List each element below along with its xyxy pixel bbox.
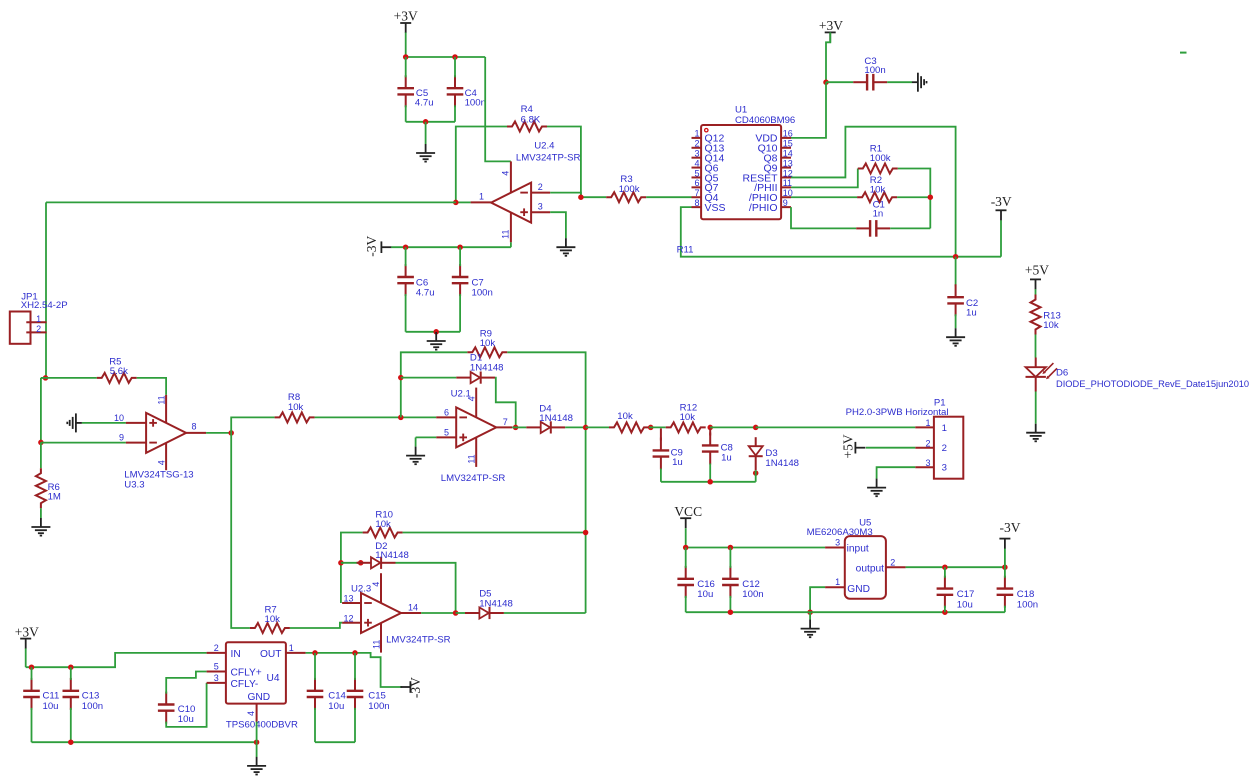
wire U5 output rail (906, 566, 1005, 568)
capacitor C8 (709, 433, 711, 446)
svg-text:10k: 10k (265, 614, 281, 625)
svg-text:6.8K: 6.8K (521, 114, 541, 125)
svg-text:9: 9 (119, 433, 124, 443)
wire to D2 (341, 562, 361, 564)
resistor R5 (97, 373, 137, 383)
svg-text:D6: D6 (1056, 367, 1068, 378)
wire U1 pin 10 (/PHIO) to R2 (791, 196, 857, 198)
wire 10k to R12 (649, 426, 666, 428)
svg-text:5: 5 (694, 168, 699, 178)
photodiode D6 (1035, 358, 1037, 368)
svg-text:4: 4 (371, 582, 381, 587)
capacitor C16 (685, 566, 687, 579)
resistor R7 (250, 623, 290, 633)
svg-text:15: 15 (783, 139, 793, 149)
svg-text:CFLY+: CFLY+ (231, 668, 262, 679)
svg-text:100k: 100k (870, 153, 891, 164)
svg-text:10k: 10k (480, 338, 496, 349)
svg-text:5.6k: 5.6k (110, 366, 128, 377)
resistor R8 (275, 412, 315, 422)
wire R10 right to bus (403, 532, 586, 534)
resistor R4 (507, 122, 547, 132)
capacitor C6 (405, 264, 407, 277)
svg-text:10k: 10k (617, 411, 633, 422)
svg-text:1N4148: 1N4148 (470, 362, 504, 373)
svg-text:4: 4 (466, 396, 476, 401)
wire stub (top right) (1180, 52, 1187, 54)
svg-text:U2.4: U2.4 (534, 141, 555, 152)
wire C5/C4 bottom rail (406, 121, 455, 123)
wire node to R5 (41, 377, 97, 379)
capacitor C3 (853, 81, 867, 83)
junction D2 anode (338, 560, 344, 566)
power +3V (bottom left) (20, 638, 31, 640)
junction C13 bottom (68, 739, 74, 745)
svg-text:11: 11 (467, 454, 477, 463)
capacitor C10 (165, 692, 167, 705)
capacitor C2 (955, 284, 957, 297)
svg-text:+5V: +5V (841, 434, 856, 458)
power -3V (above C18) (999, 538, 1010, 540)
wire U5 gnd to ground (809, 612, 811, 620)
svg-text:10u: 10u (957, 599, 973, 610)
wire +5V to R13 (1035, 289, 1037, 294)
svg-text:100n: 100n (465, 97, 486, 108)
ground right of C3 (912, 81, 918, 83)
svg-text:5: 5 (214, 662, 219, 672)
ground below C2 (955, 328, 957, 337)
svg-text:PH2.0-3PWB Horizontal: PH2.0-3PWB Horizontal (846, 407, 949, 418)
svg-text:100n: 100n (82, 701, 103, 712)
junction C6 top (403, 244, 409, 250)
svg-text:U3.3: U3.3 (124, 479, 144, 490)
junction C17 bottom (942, 609, 948, 615)
wire C14/C15 bottom rail (315, 741, 355, 743)
ground below C5/C4 (425, 144, 427, 153)
wire U2.3 output node (421, 612, 455, 614)
junction U4 GND rail (254, 739, 260, 745)
power -3V (right of U1) (996, 209, 1007, 211)
junction R5 tap (43, 375, 49, 381)
ground at U3.3 pin 10 (76, 422, 82, 424)
svg-text:7: 7 (694, 188, 699, 198)
svg-text:OUT: OUT (260, 649, 282, 660)
svg-text:1: 1 (835, 577, 840, 587)
svg-text:2: 2 (538, 182, 543, 192)
resistor R12 (666, 422, 706, 432)
svg-text:DIODE_PHOTODIODE_RevE_Date15ju: DIODE_PHOTODIODE_RevE_Date15jun2010 (1056, 379, 1249, 389)
junction C12 bottom (728, 609, 734, 615)
wire R7 to U2.3 pin 12 (290, 623, 342, 628)
resistor 10k (unnamed) (609, 422, 649, 432)
power +3V (top middle) (825, 31, 836, 33)
svg-text:-3V: -3V (364, 236, 379, 257)
junction C17 top (942, 564, 948, 570)
svg-text:1u: 1u (966, 308, 977, 319)
svg-text:1N4148: 1N4148 (479, 598, 513, 609)
svg-text:2: 2 (36, 324, 41, 334)
wire D3 bottom (755, 470, 757, 482)
wire R8 to U2.1 pin 6 (315, 416, 437, 418)
junction U5 gnd (807, 609, 813, 615)
svg-text:10k: 10k (375, 519, 391, 530)
junction C12 top (728, 545, 734, 551)
wire U1 pin 11 (/PHII) to R1 (791, 169, 858, 188)
regulator U5 ME6206A30M3 (845, 536, 886, 599)
wire C1 right to bus (890, 227, 930, 229)
wire VCC rail to U5 input (686, 547, 825, 549)
capacitor C17 (944, 576, 946, 589)
junction C8 bottom (707, 479, 713, 485)
svg-text:1: 1 (942, 423, 947, 434)
wire R4 right down to R3 node (547, 127, 581, 198)
wire R10 left down to pin 13 (341, 533, 363, 604)
svg-text:LMV324TP-SR: LMV324TP-SR (516, 153, 581, 164)
wire R12 to D3 node (710, 426, 756, 428)
junction C6/C7 bottom (433, 329, 439, 335)
wire U5 GND to rail (810, 587, 825, 612)
IC U1 CD4060BM96 (701, 125, 781, 219)
svg-text:VSS: VSS (705, 202, 726, 214)
svg-text:100n: 100n (1017, 599, 1038, 610)
svg-text:10k: 10k (1043, 320, 1059, 331)
svg-text:8: 8 (192, 421, 197, 431)
junction U2.3 output (453, 610, 459, 616)
svg-text:100n: 100n (742, 589, 763, 600)
wire R6 to ground (40, 508, 42, 518)
wire P1 pin 3 to ground (877, 467, 916, 479)
svg-text:-3V: -3V (1000, 520, 1021, 535)
wire bus to 10k resistor (586, 426, 609, 428)
svg-text:2: 2 (926, 439, 931, 449)
svg-text:VCC: VCC (674, 504, 702, 519)
op-amp U3.3 LMV324TSG-13 (146, 413, 186, 453)
resistor R13 (1031, 295, 1041, 335)
wire D4 cathode to bus (565, 426, 585, 428)
junction pin9 tap (38, 440, 44, 446)
wire D5 cathode to bus (504, 612, 586, 614)
op-amp U2.3 LMV324TP-SR (361, 593, 401, 633)
wire R1 right to loop bus (898, 169, 931, 229)
power -3V (left of C6) (380, 241, 382, 253)
diode D1 1N4148 (456, 377, 470, 379)
junction D3 bottom (753, 470, 759, 476)
svg-text:LMV324TP-SR: LMV324TP-SR (441, 473, 506, 484)
wire output down to JP1 pin 1 (45, 202, 47, 378)
wire D1 cathode to output node (495, 378, 516, 428)
junction C4 top (452, 54, 458, 60)
wire D6 to ground (1035, 392, 1037, 424)
svg-text:output: output (856, 564, 884, 575)
wire bus down to C2 (955, 257, 957, 287)
junction 10k right (648, 425, 654, 431)
wire output node long horizontal (46, 201, 456, 203)
svg-text:100n: 100n (368, 701, 389, 712)
wire down to R6 (40, 442, 42, 468)
junction U2.4 output (453, 200, 459, 206)
wire -3V rail to U2.4 pin 11 (391, 246, 511, 248)
svg-text:10u: 10u (328, 701, 344, 712)
ground at P1 pin 3 (876, 479, 878, 488)
svg-text:+3V: +3V (819, 18, 843, 33)
wire U2.4 output to node A (456, 201, 471, 203)
svg-text:3: 3 (214, 673, 219, 683)
svg-text:U4: U4 (267, 673, 280, 684)
svg-text:1: 1 (289, 643, 294, 653)
wire node to C3 (826, 81, 853, 83)
wire C11/C13 top rail to U4 IN (26, 653, 207, 667)
capacitor C11 (31, 678, 33, 691)
svg-text:100k: 100k (619, 184, 640, 195)
svg-text:6: 6 (694, 178, 699, 188)
wire ground to U3.3 pin 10 (82, 422, 126, 424)
svg-text:9: 9 (783, 198, 788, 208)
svg-text:-3V: -3V (991, 194, 1012, 209)
svg-text:4.7u: 4.7u (416, 287, 435, 298)
wire U2.4 pin3 to ground (550, 212, 566, 238)
wire R2 right to bus (897, 196, 930, 198)
wire U4 OUT rail (306, 653, 403, 687)
wire main row to P1 pin 1 (756, 426, 916, 428)
ground below U5 (809, 620, 811, 629)
ground at U2.4 pin 3 (565, 238, 567, 247)
junction D3 top (753, 425, 759, 431)
svg-text:11: 11 (783, 178, 792, 188)
svg-text:7: 7 (503, 417, 508, 427)
wire +3V jog down to VDD node (826, 32, 830, 82)
svg-text:1M: 1M (48, 492, 61, 503)
svg-text:8: 8 (694, 198, 699, 208)
svg-text:+3V: +3V (15, 624, 39, 639)
svg-text:2: 2 (214, 643, 219, 653)
wire +3V rail down to U2.4 pin 4 (485, 57, 511, 161)
junction C13 top (68, 664, 74, 670)
wire C10 bottom to CFLY- (166, 683, 206, 727)
wire U2.1 output to D4 (512, 426, 526, 428)
junction C5 top (403, 54, 409, 60)
svg-text:-3V: -3V (408, 677, 423, 698)
svg-text:2: 2 (890, 558, 895, 568)
svg-text:U2.3: U2.3 (351, 584, 371, 595)
svg-text:13: 13 (783, 158, 793, 168)
wire R9 left down to D1 node (401, 352, 468, 417)
ground below U4 (256, 757, 258, 766)
power +5V (top right) (1030, 278, 1041, 280)
regulator U4 TPS60400DBVR (226, 642, 286, 703)
junction R3 left node (578, 194, 584, 200)
op-amp U2.1 LMV324TP-SR (456, 407, 496, 447)
wire U2.4 pin2 to R3 (550, 193, 606, 198)
wire R3 to U1 pin 7 (646, 196, 691, 198)
wire U1 pin 12 (RESET) loop to -3V bus (791, 127, 956, 257)
svg-text:LMV324TP-SR: LMV324TP-SR (386, 635, 451, 646)
resistor R1 (858, 164, 898, 174)
svg-text:IN: IN (231, 649, 241, 660)
wire VCC down to rail (685, 528, 687, 547)
junction C18 top (1002, 564, 1008, 570)
svg-text:+3V: +3V (394, 9, 418, 24)
wire C6/C7 bottom rail (406, 331, 461, 333)
wire +3V to C5/C4 rail (405, 33, 407, 58)
svg-text:3: 3 (694, 148, 699, 158)
junction D4/bus (583, 425, 589, 431)
capacitor C15 (354, 678, 356, 691)
resistor R9 (467, 347, 507, 357)
svg-text:10u: 10u (697, 589, 713, 600)
svg-text:3: 3 (926, 458, 931, 468)
wire bottom gnd rail (32, 741, 257, 743)
wire R4 left to output node (456, 127, 507, 203)
junction C15 top (352, 650, 358, 656)
svg-text:1: 1 (694, 129, 699, 139)
wire node to D1 (401, 377, 456, 379)
power VCC (680, 517, 691, 519)
resistor R6 (36, 468, 46, 508)
power -3V (right of U4) (409, 681, 411, 693)
svg-text:5: 5 (444, 427, 449, 437)
ground below D6 (1035, 424, 1037, 433)
svg-text:TPS60400DBVR: TPS60400DBVR (226, 720, 298, 731)
capacitor C18 (1004, 576, 1006, 589)
capacitor C13 (70, 678, 72, 691)
junction C14 top (312, 650, 318, 656)
ground below R6 (40, 518, 42, 527)
svg-text:10k: 10k (680, 412, 696, 423)
svg-text:3: 3 (835, 538, 840, 548)
wire R9 right to output bus (507, 352, 585, 613)
wire VDD node down to pin 16 (791, 82, 826, 138)
junction C16 top (683, 545, 689, 551)
wire R5 to U3.3 pin 11 (137, 378, 166, 395)
svg-text:100n: 100n (472, 287, 493, 298)
ground at U2.1 pin 5 (415, 447, 417, 456)
wire U1 pin 8 VSS to R11 rail (681, 207, 1001, 257)
wire C2 to ground (955, 314, 957, 328)
svg-text:4: 4 (501, 171, 511, 176)
capacitor C7 (459, 264, 461, 277)
svg-text:1N4148: 1N4148 (765, 458, 799, 469)
wire output to D5 (456, 612, 465, 614)
svg-text:4.7u: 4.7u (415, 97, 434, 108)
svg-text:GND: GND (847, 584, 870, 595)
power +3V (top left) (400, 22, 411, 24)
diode D3 1N4148 (755, 437, 757, 446)
svg-text:13: 13 (344, 594, 354, 604)
svg-text:1u: 1u (721, 453, 732, 464)
junction U2.1 pin6 node (398, 415, 404, 421)
junction R11 rail / C2 (953, 254, 959, 260)
svg-text:10k: 10k (288, 402, 304, 413)
capacitor C9 (660, 438, 662, 451)
wire +3V down to rail (25, 648, 27, 667)
wire R13 to D6 (1035, 335, 1037, 358)
svg-text:10u: 10u (43, 701, 59, 712)
wire +5V to P1 pin 2 (866, 447, 915, 449)
wire JP1 pin 2 down to R5 node (41, 377, 46, 379)
wire gnd rail bottom U5 (686, 611, 1005, 613)
wire -3V stub up (1000, 220, 1002, 257)
wire node to U3.3 pin 9 (41, 442, 126, 444)
capacitor C1 (856, 227, 870, 229)
junction R12 right (707, 425, 713, 431)
capacitor C5 (405, 75, 407, 88)
capacitor C4 (454, 75, 456, 88)
junction R10/bus (583, 530, 589, 536)
svg-text:2: 2 (942, 443, 947, 454)
wire to ground below C4/C5 (425, 122, 427, 144)
wire U4 GND pin to rail (256, 722, 258, 743)
svg-text:R11: R11 (677, 244, 694, 255)
connector P1 PH2.0-3PWB Horizontal (934, 417, 963, 479)
svg-text:12: 12 (344, 613, 354, 623)
svg-text:11: 11 (500, 230, 510, 239)
svg-text:input: input (847, 544, 869, 555)
svg-text:+5V: +5V (1025, 263, 1049, 278)
wire U1 pin 9 (/PHIO) down to C1 (791, 207, 856, 228)
resistor R3 (606, 192, 646, 202)
junction C7 top (457, 244, 463, 250)
wire ground to U2.1 pin 5 (416, 436, 437, 438)
svg-text:1: 1 (36, 314, 41, 324)
svg-text:CFLY-: CFLY- (231, 679, 259, 690)
resistor R2 (857, 192, 897, 202)
svg-text:4: 4 (156, 460, 166, 465)
svg-text:10k: 10k (870, 185, 886, 196)
junction D1 anode node (398, 375, 404, 381)
svg-text:1u: 1u (672, 457, 683, 468)
diode D4 1N4148 (526, 426, 540, 428)
wire C10 top to CFLY+ (166, 672, 206, 694)
svg-text:U1: U1 (735, 105, 747, 116)
svg-text:1n: 1n (873, 209, 884, 220)
wire output up to -3V (1004, 548, 1006, 567)
wire C3 to ground (887, 81, 912, 83)
junction U3.3 output (228, 430, 234, 436)
wire U3.3 output node (206, 432, 231, 434)
wire output down to R7 (231, 433, 250, 628)
svg-text:CD4060BM96: CD4060BM96 (735, 115, 795, 126)
ground below C6/C7 (435, 332, 437, 341)
junction U2.1 output (513, 425, 519, 431)
svg-text:100n: 100n (864, 65, 885, 76)
capacitor C14 (314, 678, 316, 691)
svg-text:11: 11 (157, 395, 167, 404)
diode D2 1N4148 (357, 562, 371, 564)
svg-text:ME6206A30M3: ME6206A30M3 (807, 527, 873, 538)
capacitor C12 (729, 566, 731, 579)
svg-text:3: 3 (538, 202, 543, 212)
svg-text:11: 11 (371, 640, 381, 649)
svg-text:2: 2 (694, 139, 699, 149)
svg-text:3: 3 (942, 463, 947, 474)
connector JP1 XH2.54-2P (10, 312, 31, 344)
svg-text:1N4148: 1N4148 (375, 550, 409, 561)
svg-text:6: 6 (444, 408, 449, 418)
svg-text:1N4148: 1N4148 (539, 413, 573, 424)
svg-text:10u: 10u (178, 714, 194, 725)
svg-text:4: 4 (246, 711, 256, 716)
svg-text:GND: GND (248, 692, 271, 703)
wire D2 cathode to output node (396, 563, 456, 613)
junction R2/bus (928, 194, 934, 200)
svg-text:XH2.54-2P: XH2.54-2P (21, 300, 68, 311)
wire C9/C8/D3 bottom rail (661, 481, 756, 483)
wire left bus down (40, 378, 42, 443)
wire C5/C4 top rail (406, 56, 486, 58)
svg-text:14: 14 (408, 603, 418, 613)
svg-text:1: 1 (479, 192, 484, 202)
wire GND rail to ground (256, 742, 258, 757)
